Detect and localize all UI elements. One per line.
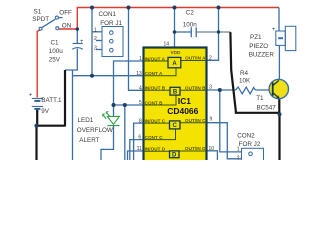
svg-text:PIEZO: PIEZO bbox=[249, 43, 268, 50]
svg-text:14: 14 bbox=[164, 41, 170, 47]
svg-text:8: 8 bbox=[139, 118, 142, 124]
svg-text:100u: 100u bbox=[49, 48, 64, 55]
svg-text:ON: ON bbox=[62, 23, 72, 30]
svg-text:OUT/IN C: OUT/IN C bbox=[185, 118, 206, 123]
svg-text:IN/OUT C: IN/OUT C bbox=[145, 118, 166, 123]
svg-text:IC1: IC1 bbox=[178, 96, 191, 106]
svg-text:4: 4 bbox=[139, 86, 142, 92]
svg-text:CON1: CON1 bbox=[99, 11, 117, 18]
svg-text:9V: 9V bbox=[41, 108, 50, 115]
svg-text:CON2: CON2 bbox=[237, 132, 255, 139]
svg-text:IN/OUT D: IN/OUT D bbox=[145, 146, 166, 151]
svg-text:2: 2 bbox=[209, 56, 212, 62]
svg-text:+: + bbox=[80, 39, 84, 45]
svg-text:BATT.1: BATT.1 bbox=[41, 97, 62, 104]
svg-text:IN/OUT A: IN/OUT A bbox=[145, 56, 166, 61]
svg-text:13: 13 bbox=[136, 71, 142, 77]
svg-text:100n: 100n bbox=[183, 21, 198, 28]
svg-text:5: 5 bbox=[139, 100, 142, 106]
svg-text:11: 11 bbox=[137, 146, 142, 152]
svg-text:CONT B: CONT B bbox=[145, 100, 164, 105]
svg-text:C: C bbox=[173, 123, 178, 129]
svg-text:VDD: VDD bbox=[171, 50, 182, 55]
svg-text:25V: 25V bbox=[49, 57, 61, 64]
svg-text:OUT/IN B: OUT/IN B bbox=[185, 86, 206, 91]
svg-text:OVERFLOW: OVERFLOW bbox=[77, 127, 113, 134]
svg-text:CD4066: CD4066 bbox=[167, 106, 198, 116]
svg-text:+: + bbox=[29, 93, 33, 99]
svg-text:OUT/IN A: OUT/IN A bbox=[185, 56, 206, 61]
svg-text:2: 2 bbox=[94, 36, 97, 42]
svg-text:BUZZER: BUZZER bbox=[249, 52, 275, 59]
svg-text:+: + bbox=[272, 27, 276, 33]
svg-text:C1: C1 bbox=[51, 40, 60, 47]
svg-text:6: 6 bbox=[138, 135, 141, 141]
svg-text:A: A bbox=[172, 61, 177, 67]
svg-text:10: 10 bbox=[209, 146, 215, 152]
svg-text:B: B bbox=[173, 90, 178, 96]
svg-text:S1: S1 bbox=[34, 9, 42, 16]
svg-text:FOR J1: FOR J1 bbox=[100, 20, 122, 27]
svg-text:R4: R4 bbox=[240, 70, 249, 77]
svg-text:C2: C2 bbox=[186, 10, 195, 17]
svg-text:BC547: BC547 bbox=[257, 104, 277, 111]
svg-text:CONT A: CONT A bbox=[145, 71, 163, 76]
svg-text:OFF: OFF bbox=[59, 10, 72, 17]
svg-text:3: 3 bbox=[94, 45, 97, 51]
svg-text:1: 1 bbox=[139, 56, 142, 62]
svg-text:T1: T1 bbox=[256, 95, 264, 102]
svg-text:FOR J2: FOR J2 bbox=[239, 141, 261, 148]
svg-text:2: 2 bbox=[237, 156, 240, 160]
svg-text:CONT C: CONT C bbox=[145, 135, 164, 140]
svg-text:SPDT: SPDT bbox=[32, 16, 49, 23]
svg-text:ALERT: ALERT bbox=[79, 137, 99, 144]
svg-text:1: 1 bbox=[94, 27, 97, 33]
svg-text:LED1: LED1 bbox=[78, 117, 94, 124]
svg-text:OUT/IN D: OUT/IN D bbox=[185, 146, 206, 151]
svg-text:IN/OUT B: IN/OUT B bbox=[145, 86, 166, 91]
svg-text:3: 3 bbox=[209, 84, 212, 90]
svg-text:10K: 10K bbox=[239, 77, 251, 84]
svg-text:D: D bbox=[172, 153, 177, 159]
svg-text:PZ1: PZ1 bbox=[250, 34, 262, 41]
svg-text:9: 9 bbox=[210, 117, 213, 123]
